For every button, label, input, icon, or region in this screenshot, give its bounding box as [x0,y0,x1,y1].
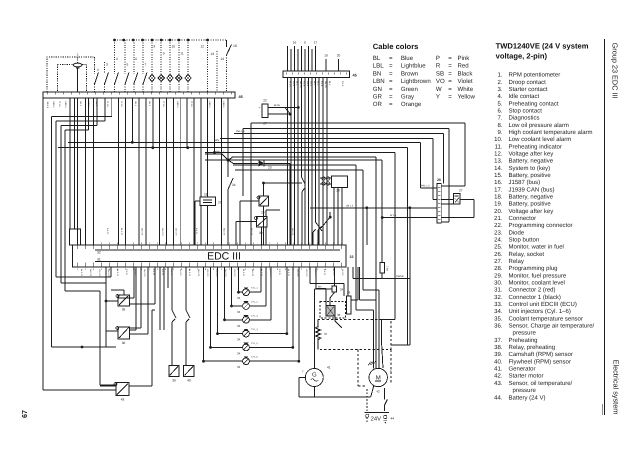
svg-text:LBN 1: LBN 1 [176,102,179,109]
svg-text:43.: 43. [494,380,503,387]
svg-text:pressure: pressure [513,331,537,337]
component 22 (connector) with contact [259,99,300,126]
svg-text:R 1.5: R 1.5 [320,81,323,87]
wires: ECU to starter group [360,267,395,368]
svg-text:SB 0.75: SB 0.75 [197,269,200,277]
labels: cable codes above ECU [106,228,294,236]
flywheel RPM sensor 40 [184,366,194,383]
svg-text:Starter contact: Starter contact [509,86,548,93]
svg-text:SB 0.75: SB 0.75 [223,228,226,236]
svg-text:Lightblue: Lightblue [401,63,426,70]
svg-text:OR/SB: OR/SB [396,275,404,278]
svg-text:28.: 28. [494,265,503,272]
monitor 29 (fuel pressure) [240,182,302,245]
svg-text:Pink: Pink [458,55,471,62]
svg-text:GN 0.75: GN 0.75 [143,269,146,277]
svg-text:=: = [389,63,393,70]
svg-text:BL 0.75: BL 0.75 [188,269,191,277]
svg-text:Sensor, oil temperature/: Sensor, oil temperature/ [509,380,573,387]
wire: horizontal link LBN [68,139,437,188]
svg-text:P 1.5: P 1.5 [58,102,61,108]
svg-text:Relay: Relay [509,258,524,265]
svg-text:Droop contact: Droop contact [509,79,547,86]
svg-text:11: 11 [180,52,184,56]
svg-text:29.: 29. [494,272,503,279]
svg-text:BL 1: BL 1 [134,102,137,107]
svg-text:SB 1.5: SB 1.5 [299,81,302,88]
svg-text:Battery, positive: Battery, positive [509,201,552,208]
svg-text:M: M [376,375,381,382]
svg-text:14.: 14. [494,165,503,172]
svg-text:=: = [389,55,393,62]
svg-text:pressure: pressure [513,388,537,394]
svg-text:21.: 21. [494,215,503,222]
svg-text:44.: 44. [494,394,503,401]
svg-text:20.: 20. [494,208,503,215]
svg-text:=: = [448,94,452,101]
wire: 45 drop 4 [297,77,299,245]
svg-text:4: 4 [116,57,118,61]
wire: staircase 5 (to fuse leg) [205,160,382,217]
svg-text:voltage, 2-pin): voltage, 2-pin) [496,52,548,61]
svg-text:33.: 33. [494,301,503,308]
svg-text:6: 6 [304,41,306,45]
svg-text:Voltage after key: Voltage after key [509,208,554,215]
svg-text:BL 1: BL 1 [148,102,151,107]
header: Group 23 EDC III [611,43,620,99]
svg-text:BL 0.75: BL 0.75 [287,269,290,277]
svg-text:GN 0.75: GN 0.75 [175,228,178,236]
svg-text:TWD1240VE (24 V system: TWD1240VE (24 V system [496,41,589,50]
svg-text:W: W [436,86,442,93]
svg-text:Battery, negative: Battery, negative [509,158,554,165]
svg-text:Coolant temperature sensor: Coolant temperature sensor [509,315,583,322]
starter motor 42 [368,361,392,394]
relay socket 26 (vertical strip) [437,178,441,223]
wires 12-14 to connector 46 [200,40,226,92]
svg-text:36: 36 [122,341,126,345]
svg-text:LBN: LBN [214,139,219,142]
svg-text:=: = [389,101,393,108]
wire: left drop A [43,98,116,390]
wire: 45 drop 3 [294,77,296,245]
svg-text:VO 0.75: VO 0.75 [98,269,101,277]
svg-text:LBN 1: LBN 1 [52,102,55,109]
svg-text:Diode: Diode [509,229,525,236]
wire: horizontal link 3 [205,152,395,319]
svg-text:27.: 27. [494,258,503,265]
svg-text:BL/W: BL/W [274,104,281,107]
contact 39 wire with switch [172,310,176,366]
svg-text:24: 24 [340,288,344,292]
svg-text:35.: 35. [494,315,503,322]
svg-text:38: 38 [337,313,341,317]
wire: 45 drop 9 (switch leg) [313,77,322,245]
svg-text:GN 1: GN 1 [292,81,295,87]
svg-text:67: 67 [20,410,29,418]
component 1: RPM potentiometer (dashed enclosure) [47,53,94,93]
wire: 45 drop 11 [322,77,324,245]
generator 41 [299,289,374,397]
wires: connector 46 to ECU (main bundle) [119,98,229,245]
svg-text:GN 0.75: GN 0.75 [161,228,164,236]
svg-text:24V: 24V [371,415,381,422]
control unit EDCIII (ECU) 33, connectors 31/32 [73,242,354,271]
svg-text:16.: 16. [494,179,503,186]
svg-text:42.: 42. [494,373,503,380]
relay 38 (preheating) [320,292,346,328]
svg-text:BL 0.75: BL 0.75 [116,269,119,277]
svg-text:Starter motor: Starter motor [509,373,544,380]
svg-text:17.: 17. [494,186,503,193]
wire: ECU to sensor trunk [105,267,118,347]
svg-text:4.: 4. [497,93,502,100]
sensor 43 (oil temperature/pressure) [100,310,155,402]
svg-text:Connector 2 (red): Connector 2 (red) [509,287,556,294]
svg-text:9.: 9. [497,129,502,136]
svg-text:22.: 22. [494,222,503,229]
svg-text:GR: GR [373,94,383,101]
svg-text:39.: 39. [494,351,503,358]
wire SBGR [0,0,1,1]
svg-text:Stop button: Stop button [509,237,540,244]
switch 16 [227,40,237,71]
svg-text:3: 3 [106,63,108,67]
wire: 45 drop 5 (switch leg) [302,77,306,245]
svg-text:Gray: Gray [401,94,415,101]
svg-text:Camshaft (RPM) sensor: Camshaft (RPM) sensor [509,351,573,358]
svg-text:8.: 8. [497,122,502,129]
svg-text:R 1.5: R 1.5 [106,102,109,108]
svg-text:27: 27 [459,189,463,193]
dashed enclosure (preheat group) [318,319,391,386]
svg-text:16: 16 [233,44,237,48]
wire: 45 drop 2 [290,77,292,245]
svg-text:Preheating contact: Preheating contact [509,100,559,107]
wire: M feed 1 [233,165,373,368]
legend: component list [494,41,594,401]
svg-text:Lightbrown: Lightbrown [401,78,431,85]
svg-text:R 0.75: R 0.75 [195,228,198,235]
wire: staircase 4 [220,139,437,200]
svg-text:35: 35 [122,308,126,312]
svg-text:J1939 CAN (bus): J1939 CAN (bus) [509,186,555,193]
svg-text:Generator: Generator [509,366,536,373]
labels: cable codes under connector 45 [289,81,345,88]
svg-text:39: 39 [172,379,176,383]
svg-text:Flywheel (RPM) sensor: Flywheel (RPM) sensor [509,358,571,365]
svg-text:Unit injectors (Cyl. 1–6): Unit injectors (Cyl. 1–6) [509,308,571,315]
svg-text:BL 1: BL 1 [317,81,320,86]
battery 44 (24V) [364,388,394,423]
sensor 35 (coolant temperature) [111,290,130,312]
svg-text:VO 0.75: VO 0.75 [206,269,209,277]
svg-text:=: = [448,70,452,77]
svg-text:Battery, positive: Battery, positive [509,172,552,179]
wire drops below ECU (left group) [100,267,155,385]
svg-text:LBL: LBL [373,63,384,70]
wire: 45 drop 6 [304,77,306,245]
svg-text:Preheating indicator: Preheating indicator [509,143,562,150]
svg-text:34: 34 [237,310,241,314]
svg-text:SB 0.75: SB 0.75 [291,228,294,236]
svg-text:=: = [389,78,393,85]
svg-text:EDC III: EDC III [207,251,241,263]
node: dotted supply rail with junctions [113,39,226,42]
svg-text:RPM potentiometer: RPM potentiometer [509,72,561,79]
svg-text:R: R [436,63,441,70]
camshaft RPM sensor 39 [169,366,179,383]
svg-text:High coolant temperature alarm: High coolant temperature alarm [509,129,593,136]
svg-text:12: 12 [200,45,204,49]
svg-text:Control unit EDCIII (ECU): Control unit EDCIII (ECU) [509,301,577,308]
svg-text:40: 40 [187,379,191,383]
svg-text:LBN 1: LBN 1 [222,102,225,109]
svg-text:Sensor, Charge air temperature: Sensor, Charge air temperature/ [509,323,595,330]
wire: staircase 3 [234,130,444,183]
svg-text:CYL_6: CYL_6 [251,356,258,359]
sensor 36 (charge air temp/pressure) [106,267,136,345]
svg-text:6: 6 [135,57,137,61]
unit injectors 34 (cyl 1-6) [202,267,258,369]
svg-text:23: 23 [268,166,272,170]
svg-text:7,5A: 7,5A [386,266,389,271]
svg-text:Preheating: Preheating [509,337,538,344]
svg-text:LBN 1: LBN 1 [87,102,90,109]
svg-text:43: 43 [121,398,125,402]
svg-text:32.: 32. [494,294,503,301]
wire: M feed 3 [235,170,379,368]
svg-text:Brown: Brown [401,70,418,77]
svg-text:Connector: Connector [509,215,537,222]
svg-text:24: 24 [232,183,236,187]
svg-text:Monitor, coolant level: Monitor, coolant level [509,280,565,287]
page number 67 [20,410,29,418]
svg-text:18.: 18. [494,193,503,200]
svg-text:19: 19 [324,54,328,58]
svg-text:Monitor, fuel pressure: Monitor, fuel pressure [509,272,567,279]
svg-text:Voltage after key: Voltage after key [509,150,554,157]
preheating element 37 [315,319,327,349]
page frame line (right) [603,39,605,415]
svg-text:37: 37 [324,332,328,336]
svg-text:=: = [448,63,452,70]
svg-text:SB 0.75: SB 0.75 [251,269,254,277]
svg-text:BL 1: BL 1 [328,81,331,86]
wire: M feed 2 [231,157,376,368]
wire: left route D [61,98,106,283]
svg-text:Low oil pressure alarm: Low oil pressure alarm [509,122,569,129]
svg-text:7.: 7. [497,115,502,122]
relay socket 26 / relay 27 [195,193,222,246]
junction node (star) [205,151,233,164]
svg-text:8: 8 [154,45,156,49]
svg-text:45: 45 [353,74,357,78]
wire: left route B [51,98,116,348]
svg-text:BL: BL [373,55,381,62]
contact near ECU [318,212,332,245]
svg-text:GN: GN [373,86,382,93]
wire: 45 drop 7 [308,77,310,245]
svg-text:P 1.5: P 1.5 [162,102,165,108]
svg-text:46: 46 [239,95,243,99]
svg-text:CYL_1: CYL_1 [251,287,258,290]
svg-text:9: 9 [163,52,165,56]
svg-text:OR: OR [373,101,383,108]
svg-text:13: 13 [210,52,214,56]
svg-text:LBN 1: LBN 1 [208,102,211,109]
svg-text:CYL_3: CYL_3 [251,314,258,317]
svg-text:G: G [312,372,317,379]
svg-text:14: 14 [220,57,224,61]
svg-text:GN 0.75: GN 0.75 [107,269,110,277]
svg-text:GN 0.75: GN 0.75 [269,269,272,277]
relay 27 (right) [441,189,474,218]
svg-text:BN: BN [373,70,381,77]
svg-text:30.: 30. [494,280,503,287]
svg-text:5.: 5. [497,100,502,107]
contact 40 wire with switch [186,310,190,366]
svg-text:Blue: Blue [401,55,414,62]
svg-text:41: 41 [327,366,331,370]
svg-text:=: = [448,86,452,93]
svg-text:Cable colors: Cable colors [373,42,419,51]
wire: left drops to connector 1 [70,98,75,229]
svg-text:20: 20 [337,54,341,58]
wire W1.5 to 21 [381,214,437,219]
svg-text:SB 0.75: SB 0.75 [89,269,92,277]
svg-text:Green: Green [401,86,418,93]
svg-text:=: = [389,70,393,77]
svg-text:Group 23 EDC III: Group 23 EDC III [611,43,620,99]
svg-text:31: 31 [97,257,101,261]
svg-text:P 1.5: P 1.5 [190,102,193,108]
svg-text:26: 26 [204,193,208,197]
svg-text:CYL_4: CYL_4 [251,328,258,331]
svg-text:SB 1.5: SB 1.5 [324,81,327,88]
svg-text:1: 1 [77,53,79,57]
svg-text:P: P [436,55,440,62]
svg-text:PBL 1.5: PBL 1.5 [236,130,245,133]
svg-text:W 0.75: W 0.75 [341,269,344,276]
svg-text:VO 0.75: VO 0.75 [233,269,236,277]
svg-text:36.: 36. [494,323,503,330]
svg-text:27: 27 [263,122,267,126]
svg-text:22: 22 [263,99,267,103]
connector 24 (small) [314,267,343,292]
svg-text:19.: 19. [494,201,503,208]
svg-text:BL 1: BL 1 [79,102,82,107]
svg-text:+: + [302,369,304,373]
svg-text:Yellow: Yellow [458,94,476,101]
svg-text:W 1.5: W 1.5 [390,214,397,217]
svg-text:BL 0.75: BL 0.75 [242,269,245,277]
svg-text:=: = [448,78,452,85]
svg-text:CYL_2: CYL_2 [251,301,258,304]
monitor 30 (coolant level) [236,210,280,245]
svg-text:Monitor, water in fuel: Monitor, water in fuel [509,244,564,251]
wire: 45 drop 1 [287,77,289,245]
svg-text:Programming plug: Programming plug [509,265,558,272]
svg-text:BL 0.75: BL 0.75 [120,228,123,236]
svg-text:R 0.75: R 0.75 [106,228,109,235]
fuse (7.5A) [380,208,410,345]
svg-text:SB 0.75: SB 0.75 [140,228,143,236]
svg-text:34.: 34. [494,308,503,315]
svg-text:=: = [389,94,393,101]
svg-text:Battery, negative: Battery, negative [509,193,554,200]
svg-text:37.: 37. [494,337,503,344]
svg-text:Programming connector: Programming connector [509,222,573,229]
svg-text:R 1.5: R 1.5 [341,81,344,87]
svg-text:R 1.5: R 1.5 [120,102,123,108]
legend: cable colors [373,42,476,108]
svg-text:W 1.5: W 1.5 [289,81,292,87]
wire: horizontal link 2 [58,146,408,345]
svg-text:=: = [448,55,452,62]
svg-text:34: 34 [237,296,241,300]
svg-text:PBL 1.5: PBL 1.5 [216,151,225,154]
svg-text:Diagnostics: Diagnostics [509,115,540,122]
svg-text:2: 2 [97,68,99,72]
svg-text:VO: VO [436,78,445,85]
svg-text:6.: 6. [497,107,502,114]
svg-text:Low coolant level alarm: Low coolant level alarm [509,136,572,143]
wire: left route E [65,98,100,291]
svg-text:24.: 24. [494,237,503,244]
svg-text:R 1.5: R 1.5 [303,81,306,87]
svg-text:+: + [390,369,392,373]
wire: 45 drop 10 [318,77,320,245]
svg-text:34: 34 [237,365,241,369]
svg-text:10.: 10. [494,136,503,143]
svg-text:BL 0.75: BL 0.75 [80,269,83,277]
svg-text:12.: 12. [494,150,503,157]
footer: Electrical system [612,360,621,415]
stop button 24 (contact) [228,162,236,246]
wire: 45 drop 12 [326,77,328,245]
switches 2-7 (contacts) [95,40,148,92]
wire: staircase 1 [251,123,465,245]
svg-text:Orange: Orange [401,101,422,108]
svg-text:10: 10 [172,45,176,49]
svg-text:VO 0.75: VO 0.75 [305,269,308,277]
svg-text:BL 1: BL 1 [313,81,316,86]
svg-text:GN 1: GN 1 [306,81,309,87]
wire: 45 drop 8 [311,77,313,245]
svg-text:30: 30 [259,231,263,235]
svg-text:W 0.75: W 0.75 [179,269,182,276]
connector 46 (terminal strip) [43,92,243,99]
svg-text:Black: Black [458,70,474,77]
svg-text:25.: 25. [494,244,503,251]
svg-text:5: 5 [127,63,129,67]
svg-text:R 0.75: R 0.75 [323,269,326,276]
svg-text:40.: 40. [494,358,503,365]
svg-text:Red: Red [458,63,469,70]
svg-text:27: 27 [218,201,222,205]
relay socket 26 (vertical) [346,267,358,314]
svg-text:=: = [389,86,393,93]
svg-text:2.: 2. [497,79,502,86]
svg-text:Battery (24 V): Battery (24 V) [509,394,546,401]
labels: cable codes under connector 46 [46,102,225,109]
programming plug 28 [320,176,348,245]
wire drops below ECU (mid group) [160,267,186,330]
svg-text:44: 44 [391,417,395,421]
svg-text:Connector 1 (black): Connector 1 (black) [509,294,561,301]
connector (left of ECU) [69,229,80,245]
